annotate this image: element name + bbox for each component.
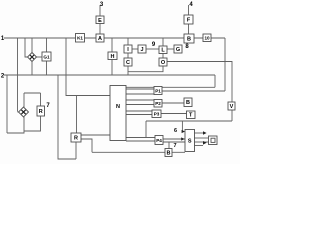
wire R bottom down: [75, 142, 77, 159]
svg-text:R: R: [74, 136, 78, 142]
wire mixer2 bottom down: [7, 117, 24, 133]
wire bigbox to P4 lower: [126, 140, 155, 142]
svg-text:J: J: [140, 47, 143, 53]
svg-text:3: 3: [100, 2, 104, 8]
box R: [71, 133, 81, 142]
wire bus1 right corner down: [224, 38, 226, 91]
arrow on P4 upper line: [181, 137, 184, 140]
box A: [96, 34, 104, 42]
wire x7 vertical to bus2: [6, 75, 8, 133]
box P1: [154, 87, 162, 95]
svg-text:K1: K1: [77, 36, 83, 41]
svg-text:9: 9: [152, 42, 156, 48]
wire V return line left: [146, 120, 232, 122]
wire bus2 horizontal: [4, 74, 215, 76]
wire bigbox to P1 lower: [126, 93, 154, 95]
wire L to O: [162, 53, 164, 58]
box V: [228, 102, 235, 110]
wire bus1 drop to I: [127, 38, 129, 45]
wire P4 to S lower: [163, 141, 185, 143]
mixer2 cross: [21, 110, 25, 114]
box E: [96, 16, 104, 24]
wire G1 bottom to bus2: [46, 61, 48, 75]
wire bigbox to P1 upper: [126, 88, 154, 90]
svg-text:B: B: [167, 151, 171, 157]
wire P3 out to T: [161, 113, 187, 115]
svg-text:O: O: [161, 60, 166, 66]
box J: [138, 45, 146, 53]
svg-text:G1: G1: [43, 55, 50, 60]
box K1: [76, 34, 85, 43]
wire O output to V chain: [167, 62, 232, 103]
wire long drop x66 to big box: [66, 38, 110, 96]
wire I to C: [127, 53, 129, 58]
wire L to G: [167, 48, 174, 50]
box O: [159, 58, 167, 66]
svg-text:A: A: [98, 36, 102, 42]
wire S out to W upper: [195, 137, 209, 139]
arrow S out 2: [203, 141, 207, 145]
svg-text:S: S: [188, 139, 192, 145]
wire box7 bottom jog: [24, 116, 41, 131]
mixer diamond1: [28, 53, 37, 62]
box W inner: [211, 138, 215, 142]
svg-text:H: H: [111, 54, 115, 60]
big box M: [110, 86, 126, 141]
wire V bottom down: [231, 110, 233, 121]
box W outer: [209, 136, 218, 145]
svg-text:V: V: [230, 104, 234, 110]
svg-text:C: C: [126, 60, 130, 66]
box F: [184, 15, 193, 24]
wire F to B: [188, 24, 190, 34]
box B: [184, 34, 194, 43]
wire bigbox to P3 upper: [126, 110, 152, 112]
wire C bottom to bus2: [127, 66, 129, 75]
svg-text:B: B: [187, 37, 191, 43]
svg-text:7: 7: [173, 143, 176, 149]
wire P2 out to B2: [162, 102, 184, 104]
wire long D line: [92, 151, 185, 153]
svg-text:4: 4: [189, 2, 193, 8]
svg-text:7: 7: [46, 103, 50, 109]
wire label4 lead: [188, 5, 190, 15]
wire drop to S arrow: [181, 121, 183, 132]
svg-text:E: E: [98, 18, 102, 24]
mixer1 cross: [30, 55, 34, 59]
wire mixer2 top feed: [24, 93, 41, 107]
wire bigbox to P4 upper: [126, 137, 155, 139]
box S: [185, 130, 195, 152]
wire bigbox to P2 lower: [126, 104, 154, 106]
box M4: [155, 136, 163, 145]
wire mixer1 top to bus1: [31, 38, 33, 53]
wire label3 lead: [99, 5, 101, 16]
box B2: [184, 98, 192, 107]
box L: [159, 46, 167, 54]
wire R upper out to bigbox: [81, 134, 110, 136]
wire G1 top to bus1: [46, 38, 48, 52]
wire P4 line drop to B3: [168, 142, 170, 149]
box G1: [42, 52, 51, 61]
wire bus1 horizontal: [4, 37, 225, 39]
box P2: [154, 100, 162, 108]
box D: [165, 149, 172, 157]
wire bus1 drop to L: [162, 38, 164, 46]
svg-text:10: 10: [204, 36, 210, 41]
wire I to J: [132, 48, 138, 50]
wire S out arrow2: [195, 145, 204, 147]
box H: [108, 52, 117, 60]
wire return line into big box right: [126, 86, 215, 88]
wire S out to W lower: [195, 141, 209, 143]
box T: [187, 111, 196, 119]
wire drop bus2 x58 down: [58, 75, 76, 159]
svg-text:B: B: [186, 100, 190, 106]
box 10: [203, 34, 211, 42]
wire P1 output to right vertical: [162, 90, 225, 92]
svg-text:P3: P3: [154, 112, 160, 117]
box G: [174, 45, 182, 53]
mixer diamond2: [19, 107, 29, 117]
svg-text:6: 6: [174, 128, 177, 134]
wire bigbox to P3 lower: [126, 114, 152, 116]
box P3: [152, 110, 161, 118]
wire J to L: [146, 48, 159, 50]
box C: [124, 58, 132, 66]
wire H bottom to bus2: [111, 60, 113, 76]
svg-text:P1: P1: [155, 89, 161, 94]
svg-text:2: 2: [1, 74, 5, 80]
wire long drop x17.5 to mixer2: [18, 38, 20, 112]
wire bus1 drop to H: [111, 38, 113, 52]
svg-text:P2: P2: [155, 101, 161, 106]
box I: [124, 45, 132, 53]
arrow into S top-left: [182, 130, 185, 133]
wire mixer1 bottom to bus2: [31, 62, 33, 76]
svg-text:P4: P4: [156, 138, 162, 143]
wire E to A: [99, 23, 101, 34]
wire bus2 right corner down: [214, 75, 216, 87]
svg-text:G: G: [176, 47, 180, 53]
svg-text:1: 1: [1, 36, 5, 42]
wire R lower out down: [81, 139, 92, 152]
svg-text:N: N: [116, 104, 120, 110]
wire mixer1 out to G1: [37, 56, 43, 58]
wire O bottom jog: [128, 66, 163, 72]
wire P4 to S upper: [163, 138, 185, 140]
svg-text:R: R: [39, 109, 43, 115]
wire drop to mixer1 left: [25, 38, 28, 57]
wire S out arrow1: [195, 132, 204, 134]
arrow S out 1: [203, 131, 207, 135]
wire V return drop to M4 line: [145, 121, 147, 138]
box 7: [37, 106, 45, 116]
svg-text:8: 8: [185, 44, 189, 50]
wire junction drop to box R: [76, 96, 78, 134]
wire bigbox to P2 upper: [126, 99, 154, 101]
